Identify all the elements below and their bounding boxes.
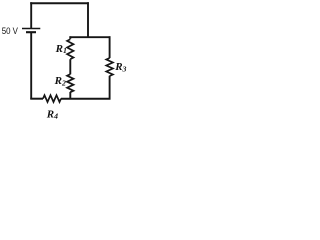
svg-text:50 V: 50 V — [2, 25, 19, 36]
svg-text:R4: R4 — [46, 108, 58, 120]
svg-text:R3: R3 — [114, 61, 126, 73]
svg-text:R2: R2 — [54, 75, 66, 87]
svg-text:R1: R1 — [55, 43, 67, 55]
